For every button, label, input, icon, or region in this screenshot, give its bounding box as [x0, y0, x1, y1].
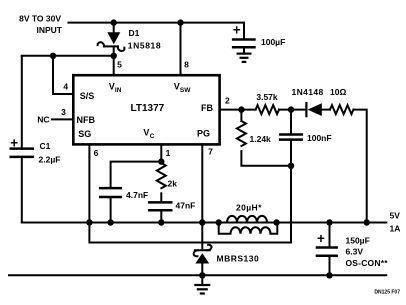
svg-text:+: + — [317, 231, 325, 246]
svg-text:3: 3 — [61, 107, 66, 117]
svg-text:150µF: 150µF — [346, 236, 370, 246]
svg-text:5: 5 — [117, 60, 122, 70]
svg-text:6.3V: 6.3V — [346, 247, 364, 257]
svg-text:6: 6 — [94, 148, 99, 158]
svg-text:INPUT: INPUT — [37, 25, 63, 35]
svg-text:20µH*: 20µH* — [236, 203, 262, 213]
svg-text:C1: C1 — [40, 141, 51, 151]
svg-text:FB: FB — [201, 103, 213, 113]
svg-text:7: 7 — [208, 147, 213, 157]
svg-text:1.24k: 1.24k — [250, 134, 272, 144]
svg-text:100nF: 100nF — [307, 133, 332, 143]
svg-text:5V: 5V — [390, 211, 401, 221]
svg-text:D1: D1 — [129, 28, 140, 38]
svg-text:V: V — [143, 128, 149, 138]
svg-text:DN125 F07: DN125 F07 — [374, 290, 400, 296]
svg-text:S/S: S/S — [80, 91, 95, 101]
svg-text:PG: PG — [197, 129, 210, 139]
svg-text:LT1377: LT1377 — [131, 103, 165, 114]
svg-text:100µF: 100µF — [261, 37, 285, 47]
svg-text:+: + — [233, 23, 241, 38]
svg-text:3.57k: 3.57k — [256, 92, 278, 102]
svg-text:47nF: 47nF — [176, 201, 196, 211]
svg-text:1N4148: 1N4148 — [292, 87, 324, 97]
svg-text:NC: NC — [37, 115, 49, 125]
svg-text:1A: 1A — [390, 224, 401, 234]
svg-text:8: 8 — [184, 60, 189, 70]
svg-text:1: 1 — [166, 148, 171, 158]
svg-text:MBRS130: MBRS130 — [217, 254, 260, 264]
svg-text:SW: SW — [180, 87, 191, 94]
svg-text:10Ω: 10Ω — [330, 87, 346, 97]
svg-text:4: 4 — [63, 82, 68, 92]
svg-text:SG: SG — [78, 129, 91, 139]
svg-text:+: + — [10, 135, 18, 150]
svg-text:4.7nF: 4.7nF — [126, 190, 148, 200]
svg-text:2: 2 — [225, 96, 230, 106]
svg-text:2.2µF: 2.2µF — [39, 154, 61, 164]
svg-text:2k: 2k — [168, 179, 178, 189]
svg-text:NFB: NFB — [77, 115, 96, 125]
svg-text:IN: IN — [115, 87, 122, 94]
svg-text:1N5818: 1N5818 — [128, 41, 161, 51]
svg-text:C: C — [150, 133, 155, 140]
svg-text:OS-CON**: OS-CON** — [346, 258, 389, 268]
svg-text:8V TO 30V: 8V TO 30V — [19, 14, 61, 24]
